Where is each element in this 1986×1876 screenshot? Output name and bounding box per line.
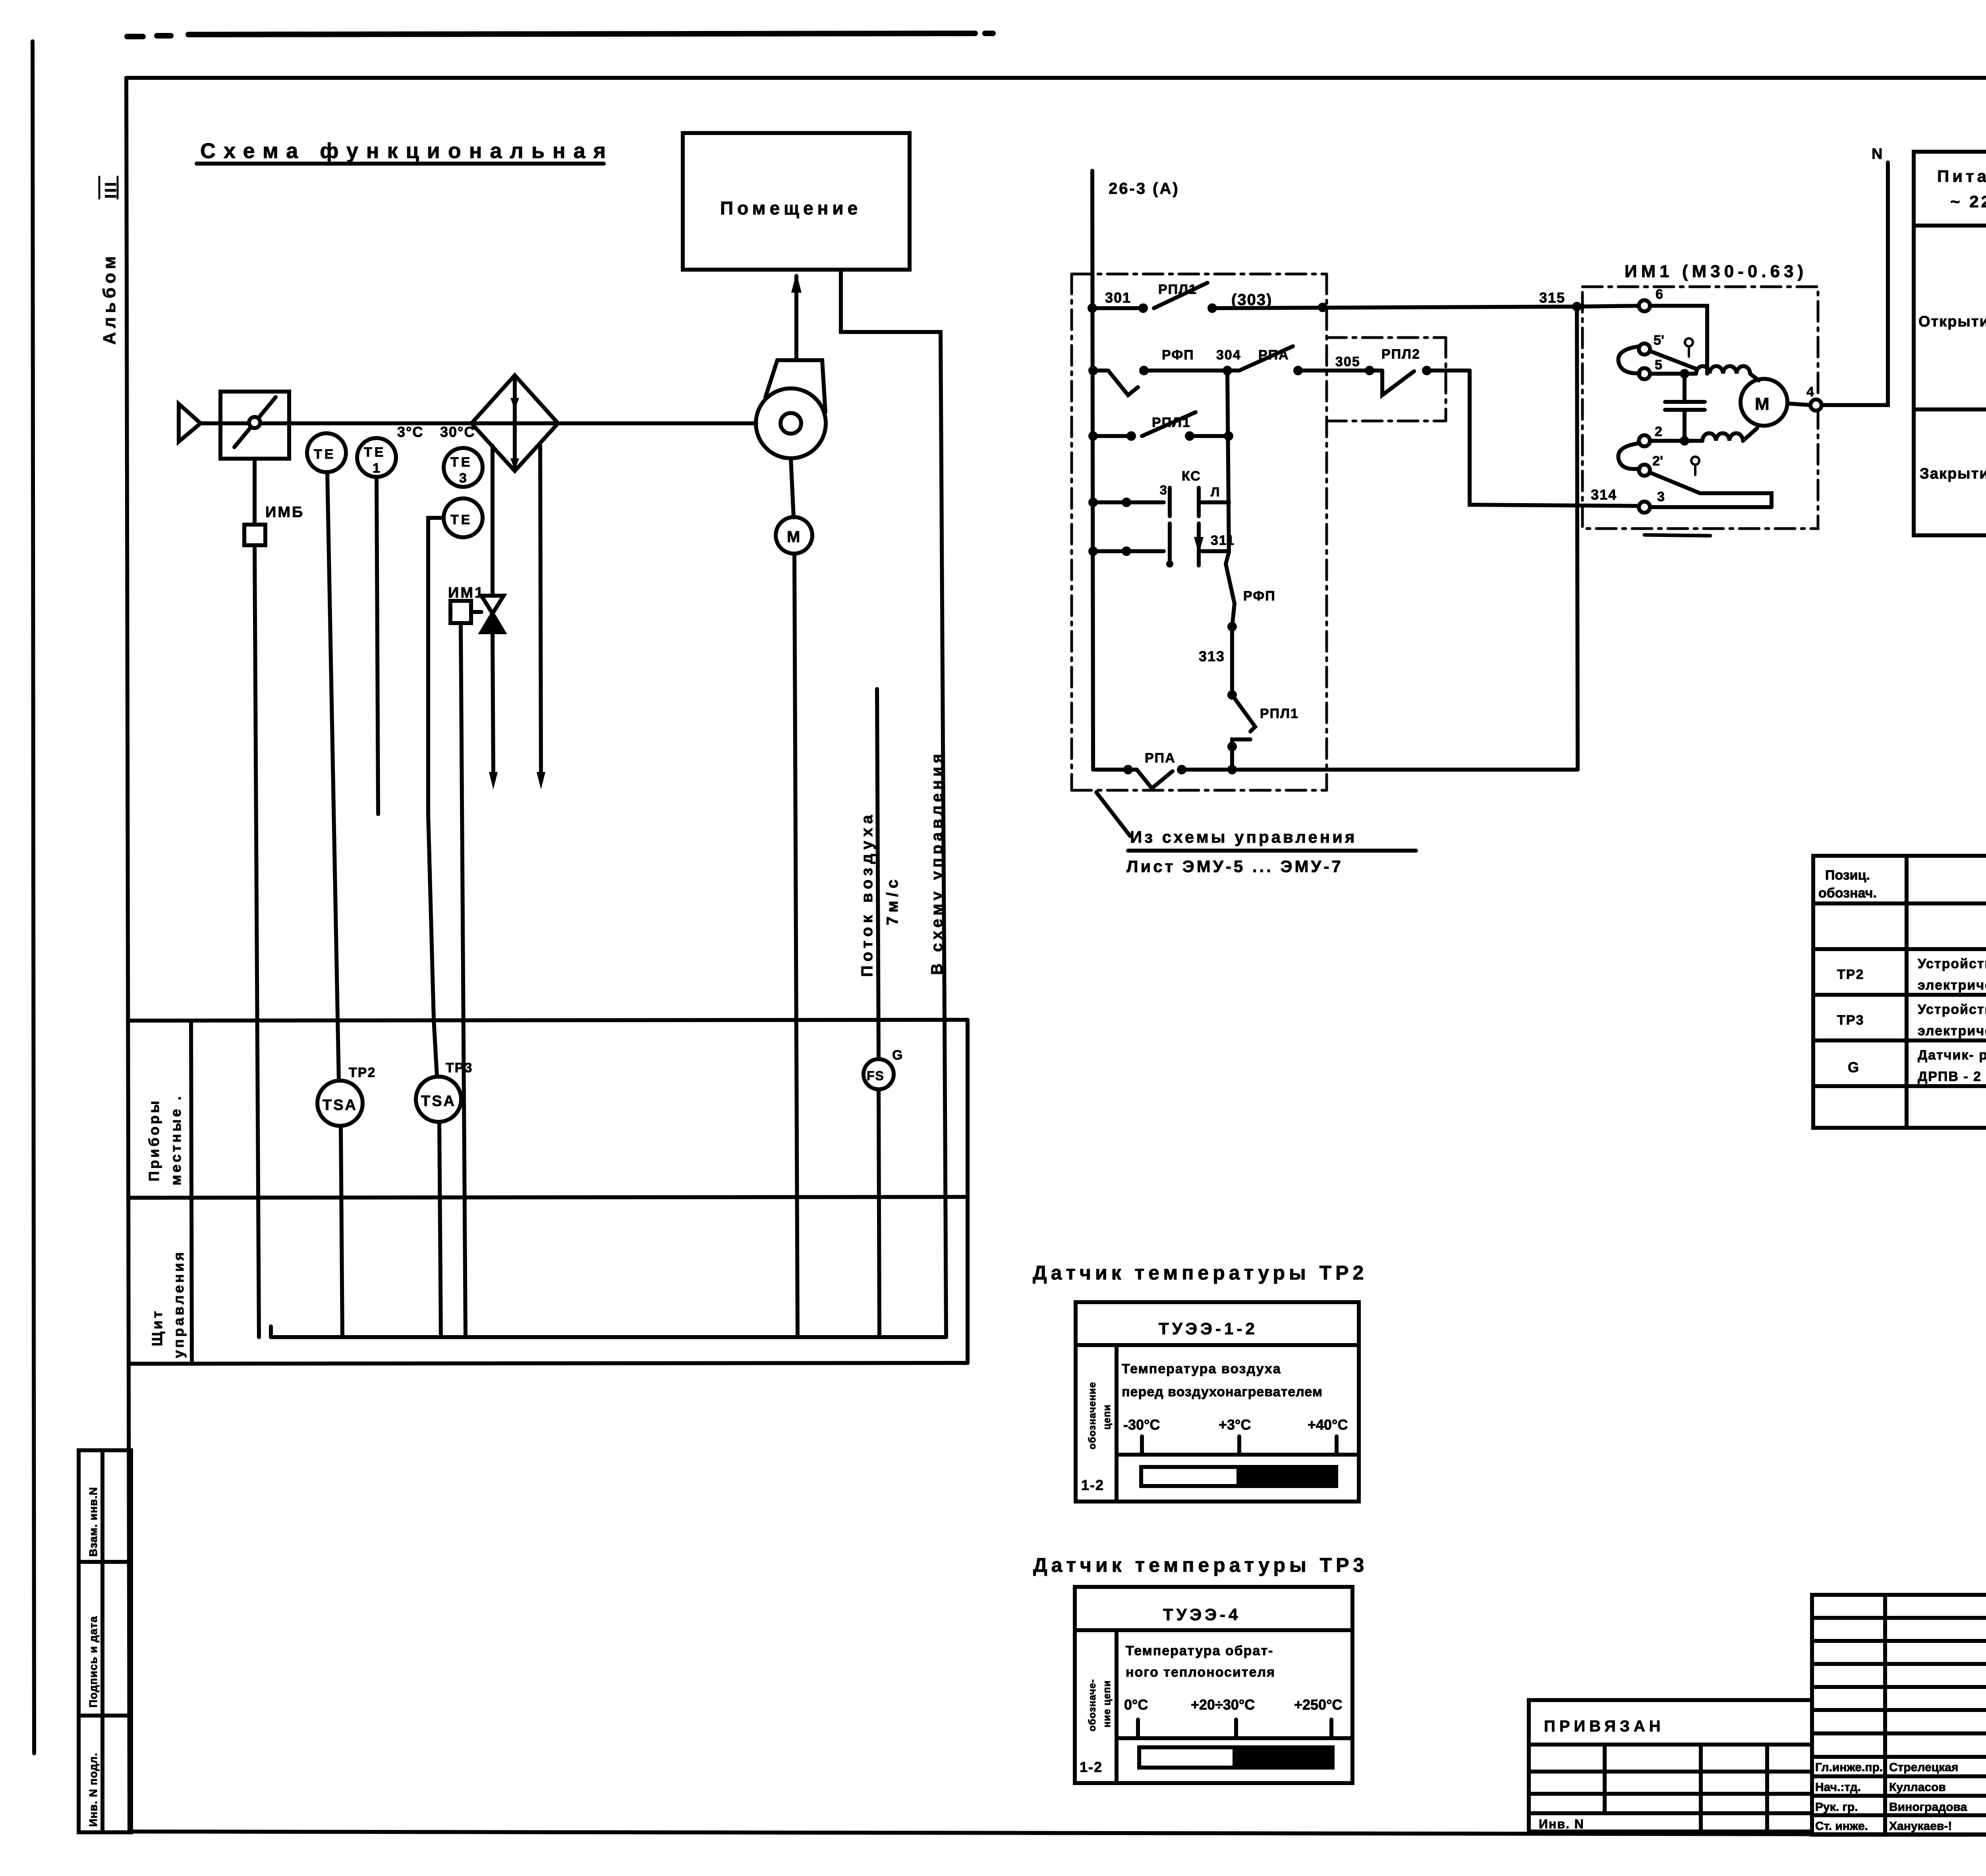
svg-text:4: 4 bbox=[1806, 384, 1814, 400]
terminal 5' bbox=[1639, 344, 1650, 355]
fan scroll bbox=[756, 360, 826, 458]
signature rows text bbox=[1815, 1761, 1967, 1833]
device TSA TP2 bbox=[317, 1081, 363, 1126]
air intake triangle bbox=[179, 404, 201, 442]
svg-text:ДРПВ - 2: ДРПВ - 2 bbox=[1918, 1069, 1982, 1084]
contact RPL1 row1 bbox=[1154, 283, 1207, 308]
wire 2' loop bbox=[1700, 493, 1772, 507]
dash-dot box RPL2 bbox=[1327, 338, 1446, 421]
svg-text:Взам. инв.N: Взам. инв.N bbox=[87, 1487, 99, 1557]
svg-text:ТР2: ТР2 bbox=[1837, 967, 1864, 982]
panel inner bottom wire bbox=[271, 1326, 946, 1337]
row 311: wire bbox=[1093, 549, 1229, 553]
heat exchanger diamond bbox=[471, 375, 558, 471]
svg-text:Температура воздуха: Температура воздуха bbox=[1122, 1361, 1281, 1376]
svg-text:+20÷30°С: +20÷30°С bbox=[1191, 1697, 1255, 1713]
sensor TE bbox=[307, 433, 346, 472]
duct line bbox=[200, 421, 756, 425]
supply pipe left bbox=[493, 446, 493, 778]
row 304: wire bbox=[1093, 371, 1639, 506]
svg-text:Закрытие: Закрытие bbox=[1920, 465, 1986, 482]
parts table bbox=[1813, 856, 1986, 1128]
terminal 5 bbox=[1639, 368, 1650, 379]
terminal 6 bbox=[1639, 300, 1650, 311]
fan motor link bbox=[791, 458, 794, 517]
svg-text:ТР3: ТР3 bbox=[1837, 1013, 1864, 1028]
wire M down bbox=[794, 554, 798, 1337]
privyazan box bbox=[1529, 1700, 1812, 1832]
terminal 4 bbox=[1810, 400, 1822, 411]
svg-text:7м/с: 7м/с bbox=[884, 876, 901, 925]
svg-text:ИМ1 (М30-0.63): ИМ1 (М30-0.63) bbox=[1625, 262, 1807, 281]
terminal 3 bbox=[1639, 502, 1650, 513]
svg-text:3: 3 bbox=[459, 471, 467, 486]
panel table bbox=[128, 1020, 968, 1364]
sensor table TP3 bbox=[1075, 1587, 1352, 1783]
svg-text:Питание: Питание bbox=[1937, 167, 1986, 185]
svg-text:Устройство терморегулирующее: Устройство терморегулирующее bbox=[1918, 956, 1986, 971]
terminal KC bbox=[1170, 488, 1199, 543]
arrows in diamond bbox=[510, 398, 519, 470]
contact RPL1 chain bbox=[1232, 695, 1255, 770]
svg-text:0°С: 0°С bbox=[1124, 1697, 1148, 1713]
svg-text:ИМБ: ИМБ bbox=[265, 504, 304, 521]
svg-text:М: М bbox=[1755, 394, 1770, 414]
svg-text:ТЕ: ТЕ bbox=[314, 447, 336, 462]
row RPA bottom: wire bbox=[1093, 768, 1578, 772]
svg-text:ТSА: ТSА bbox=[421, 1093, 456, 1110]
svg-text:КС: КС bbox=[1182, 469, 1201, 484]
svg-text:Лист ЭМУ-5 ... ЭМУ-7: Лист ЭМУ-5 ... ЭМУ-7 bbox=[1126, 857, 1343, 876]
svg-text:30°С: 30°С bbox=[440, 424, 475, 440]
t2 range bar bbox=[1139, 1747, 1333, 1768]
svg-text:5: 5 bbox=[1655, 357, 1662, 372]
svg-text:Датчик температуры ТР3: Датчик температуры ТР3 bbox=[1033, 1554, 1368, 1576]
svg-text:6: 6 bbox=[1656, 287, 1663, 302]
contact RPA row2 bbox=[1239, 346, 1293, 371]
wire TSA TP2 down bbox=[341, 1126, 342, 1337]
switch S2 pivot bbox=[1691, 457, 1699, 475]
svg-text:Из схемы управления: Из схемы управления bbox=[1130, 828, 1357, 846]
title block small grid bbox=[1812, 1595, 1986, 1835]
svg-text:Поток воздуха: Поток воздуха bbox=[858, 811, 876, 977]
svg-text:304: 304 bbox=[1216, 347, 1241, 363]
svg-text:ТР3: ТР3 bbox=[446, 1060, 473, 1075]
fan outlet wire with arrow bbox=[794, 276, 798, 359]
svg-text:Гл.инже.пр.: Гл.инже.пр. bbox=[1815, 1761, 1883, 1774]
wire 5 internal with coil bbox=[1650, 366, 1759, 380]
svg-text:В схему управления: В схему управления bbox=[928, 751, 946, 975]
svg-text:5': 5' bbox=[1654, 333, 1664, 348]
svg-text:Альбом: Альбом bbox=[100, 252, 119, 345]
svg-text:ТSА: ТSА bbox=[323, 1097, 357, 1114]
device TSA TP3 bbox=[416, 1077, 461, 1122]
title block frame bbox=[1812, 1595, 1986, 1835]
node 301 bbox=[1088, 303, 1327, 313]
svg-text:управления: управления bbox=[170, 1250, 187, 1358]
bottom left vertical strip bbox=[79, 1450, 131, 1832]
svg-text:Открытие: Открытие bbox=[1918, 313, 1986, 330]
svg-text:Температура обрат-: Температура обрат- bbox=[1126, 1643, 1273, 1658]
svg-text:1: 1 bbox=[373, 461, 380, 476]
svg-text:РПА: РПА bbox=[1145, 751, 1176, 766]
return pipe right bbox=[540, 446, 541, 778]
svg-text:РФП: РФП bbox=[1162, 347, 1194, 363]
connector loop 5 bbox=[1618, 346, 1640, 373]
svg-text:+40°С: +40°С bbox=[1308, 1417, 1348, 1433]
svg-text:G: G bbox=[892, 1048, 902, 1063]
paper top artifact line bbox=[127, 33, 1986, 78]
svg-text:3: 3 bbox=[1160, 483, 1167, 497]
sensor TE1 bbox=[357, 438, 396, 477]
t1 ticks bbox=[1142, 1436, 1337, 1455]
dash-dot boundary box bbox=[1072, 274, 1327, 790]
damper box with blade bbox=[220, 392, 289, 525]
wire 6 internal bbox=[1650, 306, 1707, 374]
svg-text:РПЛ1: РПЛ1 bbox=[1152, 415, 1191, 430]
svg-text:Л: Л bbox=[1211, 485, 1219, 499]
contact RPA bottom bbox=[1137, 770, 1173, 788]
svg-text:Виноградова: Виноградова bbox=[1889, 1801, 1967, 1814]
ladder bus 26-3(A) bbox=[1092, 171, 1093, 770]
svg-text:FS: FS bbox=[867, 1069, 885, 1083]
wire N bbox=[1822, 162, 1888, 405]
svg-text:3: 3 bbox=[1657, 489, 1665, 504]
sensor TE4 bbox=[444, 498, 483, 537]
svg-text:местные .: местные . bbox=[168, 1094, 184, 1185]
t2 ticks bbox=[1138, 1720, 1331, 1738]
svg-text:РПА: РПА bbox=[1258, 347, 1289, 363]
svg-text:Датчик- реле потока воздуха: Датчик- реле потока воздуха bbox=[1918, 1048, 1986, 1063]
svg-text:301: 301 bbox=[1105, 290, 1131, 306]
svg-text:Подпись и дата: Подпись и дата bbox=[87, 1616, 99, 1708]
svg-text:311: 311 bbox=[1211, 533, 1235, 548]
svg-text:ТУЭЭ-1-2: ТУЭЭ-1-2 bbox=[1159, 1319, 1258, 1338]
svg-text:обозначе-: обозначе- bbox=[1087, 1679, 1098, 1731]
capacitor C bbox=[1665, 374, 1705, 441]
switch S1 pivot bbox=[1685, 338, 1693, 357]
wire 3 internal bbox=[1650, 505, 1772, 509]
svg-text:Схема функциональная: Схема функциональная bbox=[200, 139, 614, 163]
svg-text:ТЕ: ТЕ bbox=[450, 455, 472, 470]
actuator IMB square bbox=[244, 525, 265, 545]
svg-text:ТР2: ТР2 bbox=[349, 1065, 376, 1080]
svg-text:N: N bbox=[1872, 146, 1882, 162]
svg-text:ТЕ: ТЕ bbox=[450, 512, 472, 527]
wire FS down bbox=[879, 1089, 879, 1337]
node 304 bbox=[1088, 366, 1432, 375]
svg-text:цепи: цепи bbox=[1101, 1404, 1113, 1430]
svg-text:Датчик температуры ТР2: Датчик температуры ТР2 bbox=[1033, 1262, 1368, 1284]
svg-text:ного теплоносителя: ного теплоносителя bbox=[1126, 1665, 1275, 1680]
svg-text:М: М bbox=[787, 528, 800, 546]
svg-text:2': 2' bbox=[1652, 454, 1663, 469]
contact RPL1 row3 bbox=[1142, 412, 1196, 436]
svg-text:ТЕ: ТЕ bbox=[364, 445, 386, 460]
svg-text:РФП: РФП bbox=[1243, 589, 1276, 604]
node 315 bbox=[1572, 302, 1582, 311]
t1 range bar bbox=[1141, 1467, 1336, 1486]
motor M circle bbox=[776, 517, 812, 554]
svg-text:Помещение: Помещение bbox=[720, 198, 862, 218]
svg-text:РПЛ1: РПЛ1 bbox=[1260, 706, 1299, 721]
svg-text:Устройство терморегулирующее: Устройство терморегулирующее bbox=[1918, 1002, 1986, 1017]
wire TSA TP3 down bbox=[439, 1122, 441, 1337]
svg-text:+3°С: +3°С bbox=[1219, 1417, 1251, 1433]
svg-text:Нач.:тд.: Нач.:тд. bbox=[1815, 1781, 1861, 1794]
device FS flow relay bbox=[864, 1059, 894, 1089]
svg-text:РПЛ2: РПЛ2 bbox=[1381, 347, 1420, 362]
room box Помещение bbox=[683, 133, 910, 270]
svg-text:электрическое ТУДЭ-4: электрическое ТУДЭ-4 bbox=[1918, 1023, 1986, 1038]
svg-text:26-3 (А): 26-3 (А) bbox=[1109, 180, 1180, 197]
svg-text:ИМ1: ИМ1 bbox=[448, 585, 485, 601]
svg-text:Инв. N подл.: Инв. N подл. bbox=[87, 1752, 99, 1827]
svg-text:ние цепи: ние цепи bbox=[1101, 1680, 1113, 1727]
svg-text:313: 313 bbox=[1199, 648, 1225, 664]
valve on left pipe bbox=[481, 596, 504, 632]
svg-text:ПРИВЯЗАН: ПРИВЯЗАН bbox=[1544, 1718, 1665, 1735]
motor M1 bbox=[1741, 379, 1787, 426]
terminal 2 bbox=[1639, 435, 1650, 446]
svg-text:Ханукаев-!: Ханукаев-! bbox=[1889, 1820, 1952, 1833]
wire right vertical 315-RPA bbox=[1577, 307, 1578, 770]
power table bbox=[1914, 152, 1986, 535]
svg-text:+250°С: +250°С bbox=[1294, 1697, 1342, 1713]
paper edge left line bbox=[33, 41, 34, 1753]
wire IM1 square down bbox=[461, 623, 466, 1337]
svg-text:перед воздухонагревателем: перед воздухонагревателем bbox=[1122, 1384, 1323, 1399]
contact RPL2 bbox=[1382, 371, 1414, 395]
switch S1 blade bbox=[1650, 351, 1695, 369]
svg-text:3°С: 3°С bbox=[397, 424, 423, 440]
svg-text:-30°С: -30°С bbox=[1123, 1417, 1160, 1433]
svg-text:Рук. гр.: Рук. гр. bbox=[1815, 1801, 1858, 1814]
svg-text:обознач.: обознач. bbox=[1818, 886, 1877, 901]
wire terminal 4 bbox=[1787, 403, 1810, 405]
svg-text:1-2: 1-2 bbox=[1080, 1759, 1103, 1775]
wire vertical 304 chain bbox=[1227, 371, 1229, 552]
wire IMB down to panel bbox=[255, 545, 259, 1337]
svg-text:2: 2 bbox=[1655, 424, 1662, 439]
wire stub below pin 3 bbox=[1644, 535, 1710, 536]
svg-text:Кулласов: Кулласов bbox=[1889, 1781, 1946, 1794]
svg-text:Позиц.: Позиц. bbox=[1825, 868, 1870, 883]
wire TE to TSA TP2 bbox=[327, 472, 339, 1081]
svg-text:1-2: 1-2 bbox=[1081, 1477, 1104, 1493]
room to control line bbox=[841, 270, 946, 1337]
sensor table TP2 bbox=[1076, 1302, 1359, 1502]
svg-text:Инв. N: Инв. N bbox=[1539, 1817, 1584, 1831]
switch S2 blade bbox=[1650, 473, 1700, 493]
svg-text:Приборы: Приборы bbox=[146, 1098, 162, 1181]
connector loop 2 bbox=[1618, 443, 1640, 469]
svg-text:РПЛ1: РПЛ1 bbox=[1158, 282, 1197, 297]
actuator IM1 square bbox=[450, 601, 481, 623]
leader line note bbox=[1096, 792, 1130, 836]
IM1 actuator dash-dot box bbox=[1582, 287, 1818, 529]
svg-text:ТУЭЭ-4: ТУЭЭ-4 bbox=[1163, 1605, 1241, 1624]
svg-text:электрическое ТУДЭ-1-2: электрическое ТУДЭ-1-2 bbox=[1918, 978, 1986, 993]
wire TE1 down bbox=[377, 477, 378, 814]
svg-text:Стрелецкая: Стрелецкая bbox=[1889, 1761, 1958, 1774]
svg-text:обозначение: обозначение bbox=[1087, 1382, 1098, 1449]
terminal 311 bbox=[1170, 537, 1199, 566]
svg-text:(303): (303) bbox=[1231, 291, 1272, 309]
row RPL1-2: wire bbox=[1093, 434, 1229, 438]
row KC: wire bbox=[1093, 500, 1229, 504]
svg-text:305: 305 bbox=[1335, 354, 1360, 369]
svg-text:Ст. инже.: Ст. инже. bbox=[1815, 1820, 1868, 1833]
terminal 2' bbox=[1639, 465, 1650, 476]
sensor TE3 bbox=[444, 448, 483, 487]
air flow sensor wire bbox=[877, 689, 879, 1060]
wire 2 internal with coil bbox=[1650, 428, 1757, 441]
row 301: wire bbox=[1092, 306, 1639, 308]
contact RFP chain bbox=[1226, 552, 1234, 695]
svg-text:314: 314 bbox=[1591, 486, 1617, 503]
svg-text:G: G bbox=[1848, 1059, 1859, 1075]
contact RFP row2 bbox=[1108, 371, 1138, 395]
wire TE4 to TSA TP3 bbox=[428, 518, 444, 1076]
svg-text:~ 220 В: ~ 220 В bbox=[1950, 192, 1986, 211]
svg-text:Щит: Щит bbox=[149, 1309, 165, 1346]
svg-text:315: 315 bbox=[1539, 290, 1565, 306]
